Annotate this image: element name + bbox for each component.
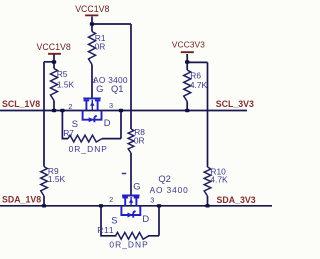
- svg-text:SCL_1V8: SCL_1V8: [2, 99, 40, 109]
- svg-text:1.5K: 1.5K: [57, 80, 75, 90]
- svg-text:Q1: Q1: [111, 83, 124, 94]
- svg-text:R7: R7: [63, 129, 74, 138]
- svg-text:SCL_3V3: SCL_3V3: [216, 99, 254, 109]
- svg-text:VCC3V3: VCC3V3: [172, 40, 205, 50]
- svg-text:VCC1V8: VCC1V8: [37, 42, 71, 52]
- svg-text:R11: R11: [97, 225, 114, 235]
- svg-text:VCC1V8: VCC1V8: [75, 4, 109, 14]
- svg-text:2: 2: [109, 195, 113, 204]
- svg-text:R5: R5: [57, 69, 68, 79]
- svg-text:G: G: [96, 83, 103, 94]
- svg-text:2: 2: [68, 102, 72, 111]
- svg-text:4.7K: 4.7K: [210, 175, 228, 185]
- svg-text:S: S: [111, 214, 117, 225]
- svg-text:G: G: [133, 181, 140, 192]
- svg-text:3: 3: [150, 196, 154, 205]
- svg-text:D: D: [142, 213, 149, 224]
- svg-text:AO 3400: AO 3400: [150, 185, 189, 195]
- svg-text:0R_DNP: 0R_DNP: [69, 144, 108, 154]
- svg-text:0R_DNP: 0R_DNP: [109, 239, 148, 249]
- svg-text:SDA_1V8: SDA_1V8: [2, 194, 41, 204]
- svg-text:4.7K: 4.7K: [190, 80, 208, 90]
- svg-text:Q2: Q2: [158, 173, 171, 184]
- svg-text:1.5K: 1.5K: [48, 174, 66, 184]
- svg-text:0R: 0R: [134, 136, 145, 146]
- svg-text:S: S: [72, 118, 78, 129]
- svg-text:3: 3: [109, 101, 113, 110]
- svg-text:SDA_3V3: SDA_3V3: [217, 195, 256, 205]
- svg-text:D: D: [104, 117, 111, 128]
- svg-text:R6: R6: [190, 71, 201, 81]
- svg-text:0R: 0R: [95, 41, 106, 51]
